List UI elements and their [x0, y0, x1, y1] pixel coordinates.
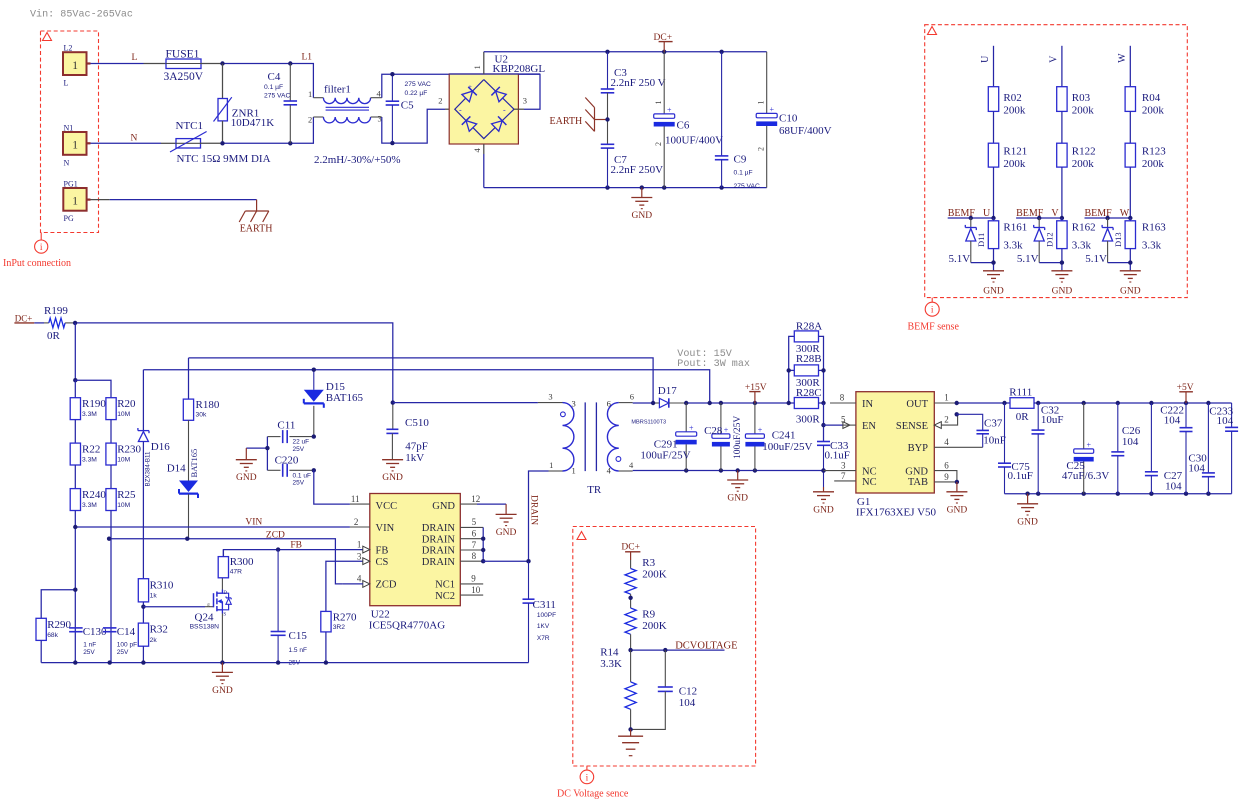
- svg-text:BEMF sense: BEMF sense: [908, 322, 960, 333]
- svg-text:3: 3: [378, 114, 382, 124]
- wire BEMF U stub: [948, 217, 994, 219]
- pin lead TAB 9: [934, 472, 959, 484]
- wire VIN net: [73, 525, 350, 529]
- svg-text:ZCD: ZCD: [266, 531, 285, 541]
- wire OUT to R111: [955, 401, 1011, 405]
- resistor R121: [988, 143, 1027, 170]
- svg-text:8: 8: [472, 551, 477, 561]
- svg-text:100uF/25V: 100uF/25V: [640, 450, 690, 462]
- wire R162 bottom: [1039, 249, 1064, 271]
- svg-text:200K: 200K: [642, 569, 667, 581]
- svg-text:1KV: 1KV: [537, 623, 550, 630]
- svg-text:3: 3: [548, 392, 552, 402]
- svg-text:30k: 30k: [196, 412, 207, 419]
- svg-text:+: +: [667, 105, 672, 114]
- svg-text:+: +: [770, 105, 775, 114]
- ic U22: [369, 494, 461, 632]
- svg-text:22 uF: 22 uF: [293, 439, 310, 446]
- wire BEMF column W top: [1129, 46, 1131, 87]
- svg-text:ICE5QR4770AG: ICE5QR4770AG: [369, 620, 445, 632]
- svg-text:275 VAC: 275 VAC: [264, 93, 290, 100]
- svg-text:3R2: 3R2: [333, 624, 346, 631]
- svg-text:D13: D13: [1113, 232, 1123, 247]
- capacitor C28 electrolytic: [704, 403, 743, 471]
- svg-text:R230: R230: [117, 444, 141, 456]
- capacitor C241 electrolytic: [745, 403, 812, 471]
- svg-text:BYP: BYP: [908, 443, 929, 454]
- svg-text:R163: R163: [1142, 222, 1166, 234]
- svg-text:Pout: 3W max: Pout: 3W max: [677, 359, 750, 370]
- svg-text:U: U: [980, 55, 991, 63]
- svg-text:25V: 25V: [83, 649, 95, 656]
- wire gate net: [143, 606, 213, 608]
- wire R161 bottom: [971, 249, 996, 271]
- svg-text:PG1: PG1: [64, 179, 78, 188]
- svg-text:1: 1: [549, 460, 553, 470]
- svg-text:i: i: [931, 306, 934, 316]
- svg-text:NC2: NC2: [435, 591, 455, 602]
- pin lead SENSE 2: [934, 414, 957, 428]
- capacitor C9: [715, 52, 760, 190]
- ground symbol BEMF U: [983, 271, 1004, 297]
- pin lead VCC 11: [350, 494, 370, 504]
- power symbol DC+ top: [654, 33, 673, 52]
- svg-text:R290: R290: [47, 619, 71, 631]
- svg-text:10nF: 10nF: [983, 435, 1006, 447]
- svg-text:NC: NC: [862, 477, 877, 488]
- svg-text:FB: FB: [290, 541, 302, 551]
- svg-text:KBP208GL: KBP208GL: [493, 63, 546, 75]
- capacitor C33: [817, 403, 850, 487]
- ground symbol under C33: [813, 487, 834, 515]
- svg-text:1: 1: [72, 196, 78, 208]
- pin lead NC 7: [834, 471, 856, 481]
- svg-text:N: N: [64, 158, 70, 167]
- wire BEMF column U top: [993, 46, 995, 87]
- wire D15 to VCC pin: [314, 470, 350, 504]
- connector L2: [63, 44, 91, 88]
- svg-text:R190: R190: [82, 398, 106, 410]
- svg-text:68UF/400V: 68UF/400V: [779, 125, 832, 137]
- svg-text:7: 7: [472, 540, 477, 550]
- svg-text:D: D: [223, 591, 227, 596]
- svg-text:BSS138N: BSS138N: [190, 624, 220, 631]
- capacitor C26: [1111, 403, 1140, 494]
- svg-text:NC1: NC1: [435, 580, 455, 591]
- svg-text:1: 1: [472, 65, 482, 69]
- svg-text:+: +: [758, 425, 763, 434]
- svg-text:L: L: [64, 79, 69, 88]
- svg-text:12: 12: [471, 494, 480, 504]
- wire bridge pin1 to DC+ rail: [483, 52, 485, 74]
- wire BEMF V stub: [1016, 217, 1062, 219]
- capacitor C6 electrolytic: [654, 52, 723, 188]
- svg-text:10M: 10M: [117, 502, 130, 509]
- wire DCVOLTAGE node: [628, 634, 724, 652]
- svg-text:i: i: [586, 773, 589, 783]
- svg-text:0.1uF: 0.1uF: [825, 450, 850, 462]
- DC voltage sense marker i: [580, 770, 594, 784]
- wire L from connector to fuse: [91, 63, 167, 65]
- svg-text:OUT: OUT: [906, 399, 928, 410]
- svg-text:275 VAC: 275 VAC: [734, 183, 760, 190]
- pin lead NC1 9: [460, 574, 483, 584]
- svg-text:3.3K: 3.3K: [600, 658, 622, 670]
- diode D17: [631, 385, 686, 426]
- svg-text:R111: R111: [1009, 387, 1032, 399]
- svg-text:9: 9: [944, 472, 949, 482]
- wire EN pin: [824, 422, 850, 429]
- svg-text:R300: R300: [230, 556, 254, 568]
- svg-text:+: +: [468, 83, 472, 91]
- resistor R20: [106, 398, 136, 420]
- capacitor C12: [628, 650, 697, 732]
- svg-text:DC+: DC+: [621, 543, 640, 553]
- svg-text:R02: R02: [1003, 92, 1021, 104]
- svg-text:200k: 200k: [1003, 105, 1026, 117]
- resistor R02: [988, 87, 1026, 117]
- svg-text:4: 4: [377, 89, 382, 99]
- svg-text:GND: GND: [212, 686, 233, 696]
- svg-text:R162: R162: [1072, 222, 1096, 234]
- power symbol +15V: [745, 383, 767, 403]
- wire bottom rail right: [1005, 492, 1232, 496]
- common mode choke filter1: [308, 84, 401, 166]
- svg-text:DRAIN: DRAIN: [422, 523, 456, 534]
- regulator G1: [856, 392, 937, 519]
- svg-text:0R: 0R: [1016, 411, 1030, 423]
- connector PG1: [63, 179, 90, 223]
- power symbol DC+ sense: [621, 543, 640, 561]
- resistor R03: [1057, 87, 1095, 117]
- svg-text:C5: C5: [401, 100, 414, 112]
- transformer TR: [548, 392, 634, 497]
- wire Q24 source to rail: [221, 614, 223, 663]
- resistor R04: [1125, 87, 1164, 117]
- net label ZCD: [266, 531, 285, 541]
- zener diode D12: [1017, 218, 1055, 265]
- net label VIN: [245, 518, 262, 528]
- ground symbol BEMF V: [1051, 271, 1072, 297]
- resistor R9: [625, 608, 667, 634]
- DC voltage sense dashed box: [573, 527, 756, 771]
- svg-text:4: 4: [607, 466, 612, 476]
- ground symbol at U22 pin12: [496, 504, 517, 538]
- svg-text:5.1V: 5.1V: [949, 253, 971, 265]
- svg-text:104: 104: [1217, 415, 1234, 427]
- svg-text:GND: GND: [947, 505, 968, 515]
- svg-text:2.2mH/-30%/+50%: 2.2mH/-30%/+50%: [314, 154, 401, 166]
- svg-text:3.3k: 3.3k: [1142, 240, 1162, 252]
- wire filter pin3 to bridge pin2: [382, 109, 455, 143]
- junction dots BEMF U: [969, 216, 996, 220]
- svg-text:0.1 µF: 0.1 µF: [734, 170, 753, 177]
- ground symbol under G1: [946, 482, 967, 515]
- svg-text:C12: C12: [679, 686, 697, 698]
- svg-text:GND: GND: [632, 211, 653, 221]
- wire R121 to BEMF node: [993, 167, 995, 218]
- wire output feedback rail: [143, 370, 709, 403]
- input connection dashed box: [41, 31, 99, 240]
- resistor R162: [1057, 218, 1096, 252]
- svg-text:InPut connection: InPut connection: [3, 258, 71, 269]
- svg-text:68k: 68k: [47, 632, 58, 639]
- svg-text:2.2nF 250 V: 2.2nF 250 V: [611, 77, 666, 89]
- svg-text:C510: C510: [405, 417, 429, 429]
- net label BEMF W: [1085, 208, 1130, 219]
- svg-text:+: +: [1087, 440, 1092, 449]
- resistor R28A: [789, 321, 824, 404]
- pin lead NC 3: [824, 461, 856, 471]
- svg-text:R32: R32: [150, 624, 168, 636]
- svg-text:2: 2: [438, 96, 442, 106]
- svg-text:R9: R9: [642, 609, 655, 621]
- svg-text:100PF: 100PF: [537, 612, 556, 619]
- wire R04 to R123: [1129, 111, 1131, 143]
- svg-text:1kV: 1kV: [405, 452, 424, 464]
- pin lead FB 1: [357, 539, 370, 553]
- svg-text:1 nF: 1 nF: [83, 642, 96, 649]
- zener diode D16: [138, 370, 170, 579]
- svg-text:1: 1: [944, 393, 949, 403]
- svg-text:104: 104: [679, 697, 696, 709]
- svg-text:4: 4: [944, 437, 949, 447]
- svg-text:BAT165: BAT165: [326, 392, 364, 404]
- ground symbol output rail: [727, 471, 748, 504]
- junction dots bottom rail: [605, 185, 724, 189]
- wire +15V rail: [684, 401, 789, 405]
- svg-text:ZCD: ZCD: [376, 580, 397, 591]
- junction dots BEMF V: [1037, 216, 1064, 220]
- svg-text:1k: 1k: [150, 593, 158, 600]
- wire CS net: [326, 561, 363, 611]
- wire R240 down to C130 rail: [74, 511, 76, 663]
- resistor R190: [70, 380, 106, 419]
- wire R03 to R122: [1061, 111, 1063, 143]
- net label DCVOLTAGE: [675, 641, 737, 652]
- pin lead BYP 4: [934, 437, 982, 447]
- svg-text:200K: 200K: [642, 620, 667, 632]
- capacitor C222: [1160, 403, 1192, 494]
- svg-text:filter1: filter1: [324, 84, 351, 96]
- thermistor NTC1: [170, 120, 271, 165]
- svg-text:R14: R14: [600, 647, 619, 659]
- junction dots C5: [390, 72, 394, 145]
- junction gate node: [141, 602, 145, 623]
- svg-text:BZX384-B11: BZX384-B11: [145, 451, 152, 487]
- svg-text:2: 2: [308, 114, 312, 124]
- svg-text:100uF/25V: 100uF/25V: [733, 416, 743, 459]
- svg-text:25V: 25V: [293, 446, 305, 453]
- wire R20 to R230: [110, 420, 112, 444]
- capacitor C291 electrolytic: [640, 403, 696, 471]
- svg-text:C37: C37: [984, 418, 1003, 430]
- svg-text:R20: R20: [117, 398, 136, 410]
- ground symbol at C11: [236, 448, 257, 483]
- svg-text:2.2nF 250V: 2.2nF 250V: [611, 164, 664, 176]
- svg-text:DRAIN: DRAIN: [422, 546, 456, 557]
- svg-text:L1: L1: [302, 53, 313, 63]
- net label BEMF V: [1016, 208, 1059, 219]
- svg-text:CS: CS: [376, 557, 389, 568]
- wire bridge pin4 down: [483, 144, 485, 188]
- svg-text:6: 6: [472, 529, 477, 539]
- resistor R310: [138, 579, 174, 602]
- svg-text:R240: R240: [82, 489, 106, 501]
- ground symbol primary rail: [212, 663, 233, 696]
- resistor R22: [70, 443, 100, 465]
- resistor R199: [34, 305, 75, 342]
- svg-text:R22: R22: [82, 444, 100, 456]
- svg-text:47R: 47R: [230, 569, 242, 576]
- svg-text:R270: R270: [333, 612, 357, 624]
- svg-text:0R: 0R: [47, 330, 61, 342]
- ground symbol at C510: [382, 460, 403, 484]
- pin lead GND 6: [934, 461, 957, 482]
- svg-text:4: 4: [357, 574, 362, 584]
- wire DC+ horizontal run: [73, 321, 393, 403]
- svg-text:6: 6: [944, 461, 949, 471]
- svg-text:C311: C311: [533, 599, 556, 611]
- resistor R3: [625, 557, 667, 594]
- wire ZCD net: [107, 537, 343, 584]
- wire R123 to BEMF node: [1129, 167, 1131, 218]
- text BEMF sense: [908, 322, 960, 333]
- diode D14: [167, 420, 199, 538]
- svg-text:PG: PG: [64, 214, 74, 223]
- input connection marker i: [35, 240, 48, 253]
- svg-text:FUSE1: FUSE1: [166, 49, 200, 61]
- svg-text:C9: C9: [734, 154, 747, 166]
- svg-text:L2: L2: [64, 44, 73, 53]
- capacitor C14: [103, 626, 137, 656]
- svg-text:Q24: Q24: [195, 612, 214, 624]
- capacitor C3: [601, 52, 666, 120]
- junction dots BEMF W: [1105, 216, 1132, 220]
- svg-text:0.1 uF: 0.1 uF: [293, 472, 311, 479]
- svg-text:25V: 25V: [117, 649, 129, 656]
- svg-text:-: -: [503, 106, 506, 115]
- net label BEMF U: [948, 208, 991, 219]
- svg-text:BAT165: BAT165: [189, 449, 199, 478]
- capacitor C7: [601, 120, 663, 188]
- svg-text:0.22 µF: 0.22 µF: [405, 90, 428, 97]
- svg-text:200k: 200k: [1142, 105, 1165, 117]
- ground symbol DC sense: [618, 729, 643, 755]
- wire R25 down to C14 rail: [110, 511, 112, 663]
- svg-text:S: S: [223, 613, 226, 618]
- svg-text:GND: GND: [1052, 287, 1073, 297]
- wire filter pin4 to top rail: [382, 74, 540, 109]
- svg-text:1.5 nF: 1.5 nF: [289, 647, 307, 654]
- resistor R122: [1057, 143, 1096, 170]
- wire fuse to L1 corner: [201, 64, 313, 98]
- svg-text:47uF/6.3V: 47uF/6.3V: [1062, 470, 1109, 482]
- svg-text:GND: GND: [1120, 287, 1141, 297]
- svg-text:2: 2: [756, 147, 765, 151]
- wire R02 to R121: [993, 111, 995, 143]
- resistor R290: [36, 588, 78, 663]
- resistor R32: [138, 623, 168, 663]
- svg-text:GND: GND: [727, 494, 748, 504]
- svg-text:DRAIN: DRAIN: [422, 534, 456, 545]
- svg-text:1: 1: [654, 101, 663, 105]
- zener diode D13: [1085, 218, 1123, 265]
- wire N from NTC to filter: [201, 117, 314, 143]
- pin lead CS 3: [357, 552, 370, 565]
- junction dots D15 C11 C220: [312, 434, 316, 472]
- capacitor C510: [386, 400, 429, 464]
- wire bridge pin3: [514, 108, 524, 110]
- net label L: [132, 53, 138, 63]
- svg-text:200k: 200k: [1072, 158, 1095, 170]
- svg-text:6: 6: [630, 392, 634, 402]
- svg-text:C28: C28: [704, 425, 723, 437]
- junction R3 R9: [628, 594, 632, 608]
- text Vout Pout: [677, 349, 750, 370]
- svg-text:SENSE: SENSE: [896, 421, 928, 432]
- svg-text:C10: C10: [779, 113, 798, 125]
- svg-text:VIN: VIN: [245, 518, 262, 528]
- svg-text:NTC1: NTC1: [176, 120, 204, 132]
- wire GND bottom rail: [484, 187, 767, 189]
- svg-text:D16: D16: [151, 441, 170, 453]
- svg-text:5.1V: 5.1V: [1085, 253, 1107, 265]
- svg-text:DRAIN: DRAIN: [422, 557, 456, 568]
- svg-text:1: 1: [72, 140, 78, 152]
- power symbol DC+ left: [14, 314, 34, 324]
- resistor R163: [1125, 218, 1166, 252]
- earth symbol EARTH under PG: [239, 200, 272, 235]
- svg-text:W: W: [1117, 53, 1128, 63]
- wire secondary top to D17: [619, 402, 653, 404]
- capacitor C25 electrolytic: [1062, 403, 1109, 494]
- wire R163 bottom: [1108, 249, 1133, 271]
- net label L1: [302, 53, 313, 63]
- svg-text:200k: 200k: [1142, 158, 1165, 170]
- capacitor C130: [69, 626, 107, 656]
- svg-text:D14: D14: [167, 463, 186, 475]
- svg-text:FB: FB: [376, 546, 389, 557]
- wire DRAIN pins join: [481, 527, 531, 563]
- svg-text:25V: 25V: [293, 480, 305, 487]
- svg-text:+: +: [689, 423, 694, 432]
- capacitor C15: [271, 550, 308, 667]
- fuse FUSE1: [164, 49, 204, 84]
- svg-text:200k: 200k: [1003, 158, 1026, 170]
- net label W: [1117, 53, 1128, 63]
- BEMF sense dashed box: [925, 25, 1188, 303]
- wire DC+ divider drop: [73, 323, 111, 398]
- svg-text:100UF/400V: 100UF/400V: [665, 135, 723, 147]
- svg-text:10D471K: 10D471K: [231, 117, 274, 129]
- bridge rectifier U2: [438, 54, 545, 153]
- net label U: [980, 55, 991, 63]
- svg-text:4: 4: [629, 460, 634, 470]
- svg-text:5.1V: 5.1V: [1017, 253, 1039, 265]
- pin lead IN 8: [830, 393, 856, 404]
- svg-text:3: 3: [357, 552, 362, 562]
- svg-text:-: -: [459, 106, 462, 115]
- svg-text:GND: GND: [382, 473, 403, 483]
- svg-text:DC Voltage sence: DC Voltage sence: [557, 789, 629, 800]
- wire primary top: [393, 402, 563, 404]
- svg-text:GND: GND: [1017, 517, 1038, 527]
- wire DC+ top rail: [484, 51, 767, 53]
- svg-text:X7R: X7R: [537, 635, 550, 642]
- svg-text:DCVOLTAGE: DCVOLTAGE: [675, 641, 737, 652]
- svg-text:C11: C11: [277, 420, 295, 432]
